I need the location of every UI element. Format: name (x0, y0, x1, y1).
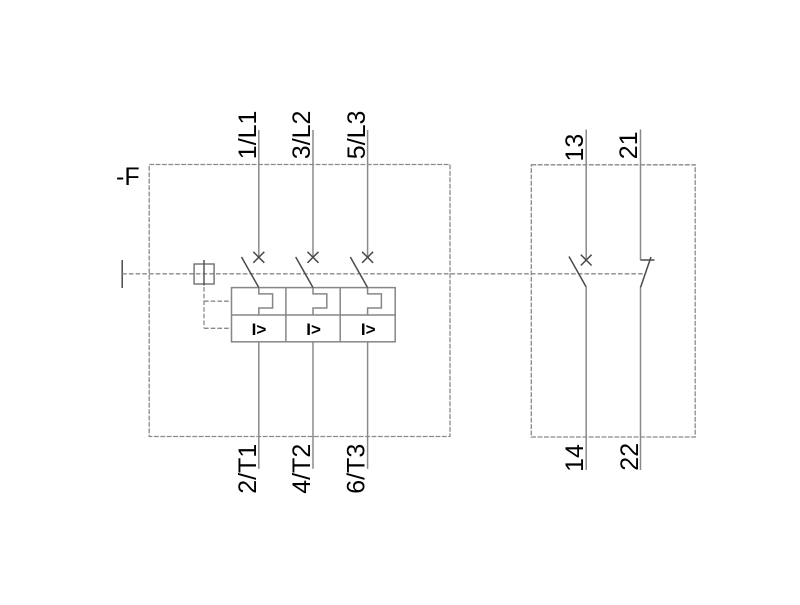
terminal label 21 (615, 131, 643, 159)
svg-text:4/T2: 4/T2 (288, 444, 316, 494)
terminal label 22 (616, 443, 644, 471)
svg-text:13: 13 (561, 134, 589, 162)
breaker housing horizontal divider (232, 314, 396, 316)
aux NC contact blade (641, 257, 652, 288)
aux NO contact blade (569, 257, 586, 288)
terminal label 3/L2 (288, 111, 316, 160)
dashed enclosure (auxiliary contact block) (531, 165, 695, 437)
svg-text:21: 21 (615, 131, 643, 159)
pole 3 overcurrent release I> (361, 320, 376, 339)
pole 1 bottom wire (258, 342, 260, 469)
dashed enclosure (main breaker unit) (149, 165, 450, 437)
svg-text:-F: -F (116, 163, 140, 191)
label -F (116, 163, 140, 191)
pole 2 blade (296, 257, 313, 288)
terminal label 13 (561, 134, 589, 162)
pole 3 bottom wire (367, 342, 369, 469)
svg-text:22: 22 (616, 443, 644, 471)
pole 1 overcurrent release I> (252, 320, 267, 339)
trip linkage dashed vertical (203, 287, 205, 328)
breaker housing box (232, 288, 396, 342)
manual operator tick (121, 260, 123, 288)
terminal label 14 (561, 444, 589, 472)
pole 1 latch (259, 288, 273, 315)
svg-text:6/T3: 6/T3 (343, 444, 371, 494)
breaker housing vertical divider 2 (339, 288, 341, 342)
svg-text:I>: I> (306, 320, 321, 339)
svg-text:I>: I> (361, 320, 376, 339)
svg-text:2/T1: 2/T1 (234, 444, 262, 494)
aux NC contact seat (641, 259, 655, 261)
pole 2 contact cross (308, 252, 319, 263)
svg-text:1/L1: 1/L1 (234, 111, 262, 160)
pole 2 bottom wire (312, 342, 314, 469)
aux NC contact bottom wire 22 (640, 288, 642, 471)
terminal label 2/T1 (234, 444, 262, 494)
trip linkage dashed stub upper (204, 300, 232, 302)
aux NO contact bottom wire 14 (585, 287, 587, 470)
pole 3 blade (350, 257, 367, 288)
svg-text:5/L3: 5/L3 (343, 111, 371, 160)
aux NC contact top wire 21 (640, 130, 642, 261)
trip linkage dashed stub lower (204, 327, 232, 329)
pole 2 top wire (312, 130, 314, 257)
pole 1 top wire (258, 130, 260, 257)
pole 2 latch (313, 288, 327, 315)
pole 1 contact cross (253, 252, 264, 263)
terminal label 4/T2 (288, 444, 316, 494)
trip mechanism square (194, 264, 214, 284)
pole 3 top wire (367, 130, 369, 257)
breaker housing vertical divider 1 (285, 288, 287, 342)
pole 2 overcurrent release I> (306, 320, 321, 339)
svg-text:14: 14 (561, 444, 589, 472)
terminal label 6/T3 (343, 444, 371, 494)
pole 1 blade (242, 257, 259, 288)
aux NO contact cross (581, 255, 592, 266)
terminal label 1/L1 (234, 111, 262, 160)
pole 3 latch (368, 288, 382, 315)
trip mechanism stem (203, 260, 205, 286)
aux NO contact top wire 13 (585, 130, 587, 261)
svg-text:3/L2: 3/L2 (288, 111, 316, 160)
terminal label 5/L3 (343, 111, 371, 160)
mechanical linkage line (122, 273, 645, 275)
svg-text:I>: I> (252, 320, 267, 339)
pole 3 contact cross (362, 252, 373, 263)
